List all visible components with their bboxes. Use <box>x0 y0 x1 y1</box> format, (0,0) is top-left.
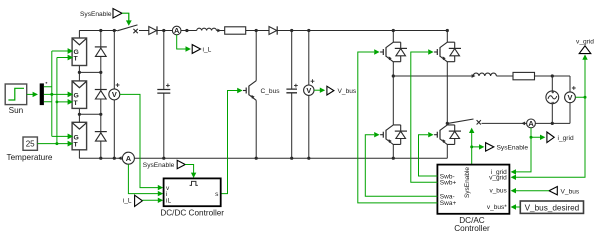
wire SysEnable to breaker 1 <box>122 13 129 21</box>
wire grid top <box>535 75 571 77</box>
svg-text:V: V <box>306 86 311 95</box>
voltmeter v_grid <box>565 76 576 123</box>
svg-text:SysEnable: SysEnable <box>464 167 471 198</box>
wire PV column stubs <box>78 31 80 159</box>
node voltmeter-column / bottom rail <box>113 157 116 160</box>
svg-text:Sun: Sun <box>9 106 24 115</box>
svg-text:V_bus_desired: V_bus_desired <box>525 203 580 212</box>
arrow G2 <box>68 92 74 98</box>
wire gate drive from DC/DC controller <box>221 91 238 194</box>
node phase A output <box>392 74 395 77</box>
svg-text:v_bus*: v_bus* <box>487 204 507 211</box>
svg-text:G: G <box>74 134 79 141</box>
node bridge leg A / bottom rail <box>392 157 395 160</box>
ammeter A (boost inductor current) <box>172 26 181 35</box>
svg-text:Swb+: Swb+ <box>440 180 457 187</box>
svg-text:iL: iL <box>166 197 171 204</box>
mux bar <box>40 83 44 105</box>
bypass diode D3 <box>95 132 107 142</box>
node C_bus / top rail <box>290 29 293 32</box>
svg-text:A: A <box>126 154 132 163</box>
svg-text:DC/DC Controller: DC/DC Controller <box>160 208 224 217</box>
wire Sun to mux <box>27 93 34 95</box>
arrow T2 <box>68 99 74 105</box>
transistor Q1 boost IGBT <box>243 31 256 159</box>
svg-text:SysEnable: SysEnable <box>80 11 112 18</box>
wire bridge leg B <box>446 31 448 159</box>
node voltmeter-column / top rail <box>113 29 116 32</box>
svg-text:i_L: i_L <box>203 47 212 54</box>
bypass diode D2 <box>95 90 107 100</box>
svg-text:v_grid: v_grid <box>576 39 594 46</box>
node Q1 emitter / bottom rail <box>255 157 258 160</box>
svg-text:v_grid: v_grid <box>489 175 507 182</box>
wire V_bus_desired to controller <box>516 206 521 208</box>
wire T distribution bus <box>37 58 68 144</box>
breaker switch 1 <box>117 25 138 33</box>
wire phase A output <box>393 75 472 77</box>
node diode-column / bottom rail <box>99 157 102 160</box>
arrow G1 <box>68 48 74 54</box>
PV panel block 3 <box>72 122 87 150</box>
node grid top <box>551 74 554 77</box>
node boost switch top <box>255 29 258 32</box>
series diode D5 (boost) <box>269 26 277 34</box>
bypass diode D1 <box>95 47 107 57</box>
transistor Q5 bottom-right IGBT <box>434 125 461 145</box>
svg-text:SysEnable: SysEnable <box>497 144 529 151</box>
node V_bus meter / bottom rail <box>307 157 310 160</box>
node bypass D2-D3 junction <box>99 113 102 116</box>
i_L From tag <box>123 195 143 206</box>
svg-text:V_bus: V_bus <box>561 188 580 195</box>
V_bus Goto tag <box>327 86 357 95</box>
node PV2-PV3 junction <box>78 113 81 116</box>
breaker switch 2 <box>449 119 481 125</box>
ammeter A (PV string, series in bottom rail) <box>118 152 135 164</box>
wire Swb+ gate drive (top-right IGBT) <box>411 52 438 182</box>
SysEnable From tag (top left) <box>80 9 122 19</box>
svg-text:V: V <box>112 90 117 99</box>
transistor Q4 bottom-left IGBT <box>380 125 407 145</box>
v_grid Goto tag (up) <box>576 39 594 54</box>
wire grid return <box>447 122 570 124</box>
node bridge leg A / top rail <box>392 29 395 32</box>
PV panel block 1 <box>72 38 87 66</box>
capacitor C1 (input) <box>157 31 170 159</box>
node diode-column / top rail <box>99 29 102 32</box>
V_bus From tag (right, mirrored) <box>549 187 580 196</box>
ammeter i_grid <box>521 119 535 128</box>
svg-text:i_L: i_L <box>123 198 132 205</box>
svg-text:G: G <box>74 92 79 99</box>
wire V_bus to Goto <box>314 89 320 91</box>
svg-text:Swa+: Swa+ <box>440 200 457 207</box>
wire Swb- gate drive (bottom-right IGBT) <box>419 135 438 176</box>
wire v_grid measurement <box>516 59 586 178</box>
arrow G3 <box>68 134 74 140</box>
wire V_bus to controller <box>516 190 550 192</box>
voltmeter V_bus <box>304 31 315 159</box>
wire mux output / G distribution bus <box>44 51 68 136</box>
wire SysEnable from DC/AC controller <box>472 133 479 165</box>
wire i measurement (PV current) <box>128 164 158 193</box>
DC/DC Controller block <box>160 178 224 217</box>
resistor R1 (boost) <box>225 27 246 34</box>
Temperature constant block 25 <box>7 137 53 162</box>
i_L Goto tag <box>192 45 211 54</box>
node after ammeter <box>185 29 188 32</box>
series diode D4 <box>149 26 157 34</box>
SysEnable Goto tag (right) <box>486 143 529 152</box>
node C_bus / bottom rail <box>290 157 293 160</box>
i_grid Goto tag <box>547 132 574 143</box>
PV panel block 2 <box>72 81 87 109</box>
Sun step source block <box>5 84 27 115</box>
node bridge leg B / top rail <box>446 29 449 32</box>
svg-text:i_grid: i_grid <box>558 135 574 142</box>
svg-text:V_bus: V_bus <box>338 88 357 95</box>
voltmeter V (PV string) <box>109 83 120 100</box>
node T-bus junction <box>55 142 58 145</box>
node PV1-PV2 junction <box>78 71 81 74</box>
svg-text:V: V <box>568 93 573 102</box>
node C1 / bottom rail <box>162 157 165 160</box>
svg-text:SysEnable: SysEnable <box>143 162 175 169</box>
wire i_L measurement to Goto tag <box>177 35 186 49</box>
wire bottom negative rail <box>79 157 447 159</box>
node grid return <box>551 122 554 125</box>
AC voltage source <box>546 76 559 123</box>
V_bus_desired constant block <box>520 201 583 213</box>
svg-text:A: A <box>528 119 534 128</box>
wire PV interconnect rows <box>79 72 100 114</box>
wire SysEnable to DC/DC controller <box>185 165 193 174</box>
wire to resistor <box>496 75 513 77</box>
svg-text:Temperature: Temperature <box>7 153 53 162</box>
transistor Q2 top-left IGBT <box>380 42 407 62</box>
capacitor C_bus <box>261 31 298 159</box>
node G-bus junction <box>50 93 53 96</box>
svg-text:A: A <box>174 26 180 35</box>
wire v measurement (PV voltage) <box>120 94 159 187</box>
arrow T3 <box>68 141 74 147</box>
svg-text:Controller: Controller <box>454 224 490 233</box>
svg-text:C_bus: C_bus <box>261 88 281 95</box>
arrow T1 <box>68 55 74 61</box>
svg-text:25: 25 <box>26 140 35 149</box>
resistor R2 (grid) <box>513 72 535 79</box>
node phase B output <box>446 122 449 125</box>
inductor L2 (grid) <box>472 74 476 78</box>
wire bridge leg A <box>392 31 394 159</box>
wire bypass diode column <box>100 31 102 159</box>
node bypass D1-D2 junction <box>99 71 102 74</box>
wire Swa+ gate drive (top-left IGBT) <box>358 52 438 203</box>
wire voltmeter column <box>113 31 115 159</box>
node C1 / top rail <box>162 29 165 32</box>
wire i_L to controller <box>142 199 158 201</box>
transistor Q3 top-right IGBT <box>434 42 461 62</box>
wire i_grid measurement <box>516 128 541 172</box>
inductor L1 (boost) <box>197 28 217 30</box>
wire top positive rail <box>79 30 447 32</box>
node V_bus meter / top rail <box>307 29 310 32</box>
DC/AC Controller block <box>437 165 509 233</box>
svg-text:v_bus: v_bus <box>489 187 507 194</box>
wire Swa- gate drive (bottom-left IGBT) <box>365 135 437 197</box>
SysEnable From tag (DC/DC) <box>143 160 185 169</box>
